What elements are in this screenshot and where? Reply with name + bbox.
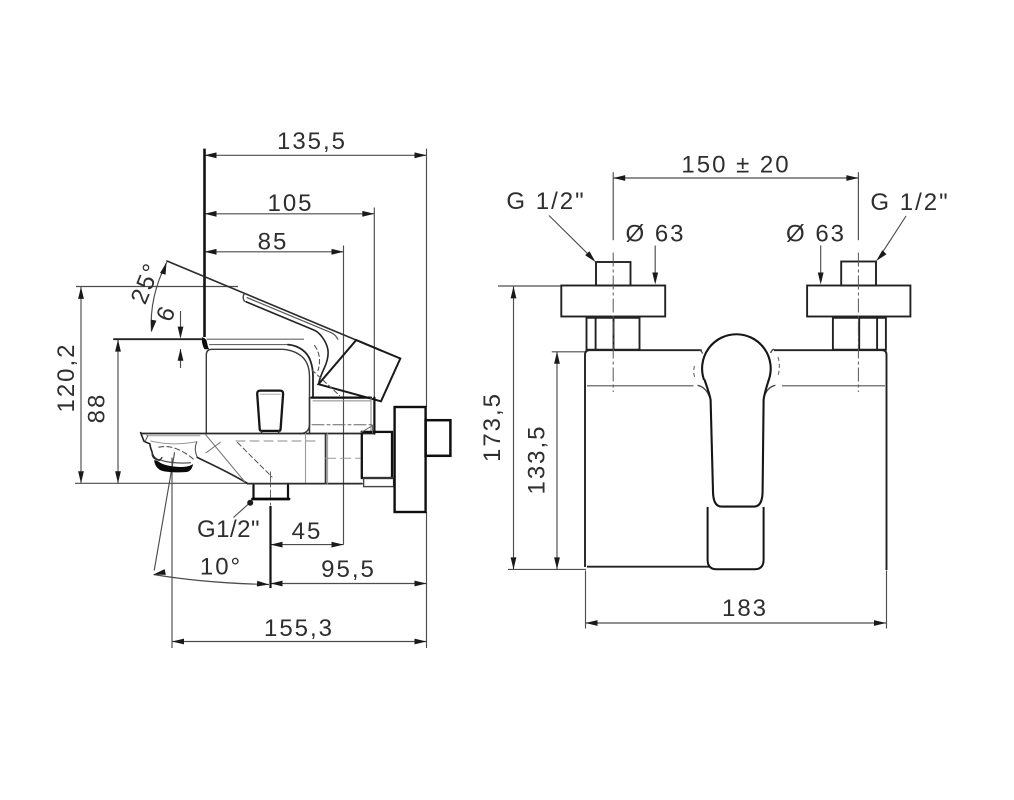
- svg-text:Ø 63: Ø 63: [786, 221, 846, 248]
- svg-text:85: 85: [258, 229, 289, 256]
- svg-text:133,5: 133,5: [524, 424, 551, 494]
- svg-text:10°: 10°: [200, 554, 242, 581]
- svg-text:173,5: 173,5: [479, 392, 506, 462]
- svg-text:95,5: 95,5: [321, 556, 376, 583]
- svg-text:45: 45: [292, 518, 323, 545]
- svg-text:150 ± 20: 150 ± 20: [681, 152, 790, 179]
- svg-text:120,2: 120,2: [53, 342, 80, 412]
- svg-text:G1/2": G1/2": [197, 516, 260, 543]
- svg-text:Ø 63: Ø 63: [625, 221, 685, 248]
- svg-text:G 1/2": G 1/2": [870, 189, 949, 216]
- svg-text:183: 183: [722, 595, 768, 622]
- svg-text:155,3: 155,3: [264, 615, 334, 642]
- svg-text:88: 88: [84, 393, 111, 424]
- svg-text:135,5: 135,5: [277, 128, 347, 155]
- svg-text:25°: 25°: [126, 259, 167, 308]
- svg-text:G 1/2": G 1/2": [506, 188, 585, 215]
- svg-text:105: 105: [267, 190, 313, 217]
